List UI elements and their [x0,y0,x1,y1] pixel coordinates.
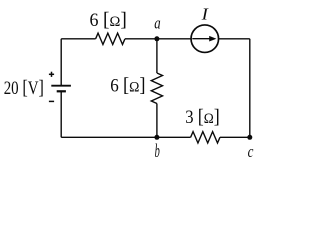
wire right vertical [249,39,251,138]
svg-text:c: c [248,142,254,161]
wire left vertical lower (from battery - plate) [60,91,62,137]
battery V1 long (+) plate [51,85,71,87]
node c dot [247,135,252,140]
resistor R_mid 6 ohm vertical zigzag [151,73,162,104]
svg-text:I: I [201,4,210,23]
svg-text:3 [Ω]: 3 [Ω] [185,106,220,128]
battery minus sign [49,100,54,102]
wire bottom-left segment [61,136,190,138]
wire bottom-right segment [220,136,250,138]
svg-text:20 [V]: 20 [V] [4,77,44,99]
svg-text:6 [Ω]: 6 [Ω] [90,9,127,31]
resistor R_top 6 ohm zigzag [96,33,125,44]
battery V1 short (-) plate [57,90,66,92]
wire left vertical upper (to battery + plate) [60,39,62,86]
battery plus sign [49,72,54,77]
node a dot [154,36,159,41]
wire top-left segment [61,38,95,40]
wire current source to top-right corner [219,38,250,40]
current source arrow shaft [192,38,211,40]
wire node a down to R_mid [156,39,158,73]
current source arrow head [209,36,216,42]
svg-text:b: b [155,141,160,162]
wire from R_top to current source (through node a) [125,38,191,40]
svg-text:6 [Ω]: 6 [Ω] [110,74,145,96]
current source circle [191,25,219,53]
node b dot [154,135,159,140]
svg-text:a: a [154,14,160,33]
wire R_mid down to node b [156,104,158,138]
resistor R_bottom 3 ohm zigzag [191,132,220,143]
